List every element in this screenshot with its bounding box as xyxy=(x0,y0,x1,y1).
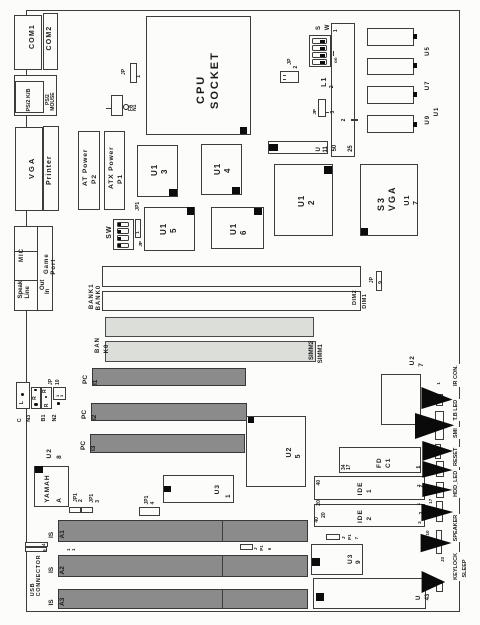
label BANK1 xyxy=(89,283,95,309)
CPU socket U0 xyxy=(146,16,251,135)
chip U15 xyxy=(144,207,195,251)
battery box xyxy=(381,374,421,425)
USB header J4 xyxy=(25,542,48,547)
header pin rect HDD LED xyxy=(436,482,444,498)
pin1 marker CPU socket xyxy=(240,128,247,135)
label DIMM1 xyxy=(363,294,369,309)
chip U17 S3 VGA xyxy=(360,164,419,236)
pin number 1 (RESET) xyxy=(417,466,422,469)
arrow SPEAKER xyxy=(421,504,453,522)
jumper JP1 (right of SW dip) xyxy=(135,219,141,239)
label U7 xyxy=(425,81,431,91)
label Out In xyxy=(40,280,46,290)
label DIMM2 xyxy=(353,290,359,305)
jumper JP16 xyxy=(240,544,253,550)
chip U28 label xyxy=(47,448,54,458)
jumper JP9 xyxy=(376,271,382,291)
label MIC xyxy=(19,248,25,262)
cache chip (U10) xyxy=(367,115,414,133)
ISA slot ISA1 xyxy=(58,520,308,542)
label BANK0 xyxy=(96,285,102,311)
connector ATX Power P1 xyxy=(104,131,125,210)
connector IDE2 xyxy=(314,504,425,528)
connector Printer xyxy=(43,126,59,212)
arrow IR CON xyxy=(421,387,452,409)
label CN2 xyxy=(53,414,59,421)
jumper JP14 xyxy=(139,507,160,516)
jumper JP10 xyxy=(53,387,66,400)
label SPEAKER xyxy=(454,514,460,543)
connector VGA xyxy=(15,127,44,211)
pin number 1 (SPEAKER) xyxy=(417,503,422,506)
SIMM slot SIMM1 xyxy=(105,341,316,362)
chip U22 YAMAHA xyxy=(34,466,69,507)
chip U16 xyxy=(211,207,264,249)
PCI slot PCI1 xyxy=(92,368,246,387)
connector CN2 (R R) xyxy=(41,387,52,409)
label RESET xyxy=(454,447,460,467)
label J3 xyxy=(441,557,446,562)
label U9 xyxy=(425,115,431,125)
fan connector FAN1 xyxy=(111,95,124,116)
cache chip row (U5) xyxy=(367,28,414,46)
connector IDE1 xyxy=(314,476,425,499)
jumper JP1 (above CPU) xyxy=(130,63,137,83)
header pin rect SMI xyxy=(435,444,441,459)
label B1 xyxy=(42,414,48,421)
label SLEEP xyxy=(463,559,469,577)
cache chip (U9) xyxy=(367,86,414,104)
arrow TB LED xyxy=(415,413,454,439)
connector COM1 xyxy=(14,15,42,70)
chip U27 label xyxy=(410,355,417,365)
label KEYLOCK xyxy=(454,552,460,581)
DIMM slot DIMM1 xyxy=(102,292,361,312)
pin number 1 (IR) xyxy=(437,382,442,385)
connector audio/game port block xyxy=(14,226,54,311)
chip U39 xyxy=(311,544,363,575)
PCI slot PCI2 xyxy=(91,403,247,422)
arrow HDD LED xyxy=(422,483,452,497)
jumper JP17 xyxy=(326,534,340,540)
label CN3 xyxy=(18,418,24,422)
label SMI xyxy=(454,427,460,439)
connector FDC1 xyxy=(339,447,421,472)
connector 50-pin header xyxy=(331,23,356,157)
connector PS/2 K/B xyxy=(15,81,44,113)
jumper JP12 xyxy=(69,507,81,513)
pin number 3 xyxy=(418,521,423,524)
label BANK0 (SIMM) xyxy=(95,337,101,353)
connector CN (R) xyxy=(31,387,41,409)
header pin rect KEYLOCK xyxy=(436,531,443,555)
chip U25 xyxy=(246,416,306,488)
DIMM slot DIMM2 xyxy=(102,266,361,287)
header pin rect RESET xyxy=(436,461,444,477)
ISA slot ISA2 xyxy=(58,556,308,578)
connector COM2 xyxy=(43,13,58,70)
label Speak Line xyxy=(18,281,24,299)
connector AT Power P2 xyxy=(78,131,100,210)
dip switch SW (near ATX power) xyxy=(106,225,113,238)
connector CN3 (CD audio L) xyxy=(16,382,30,410)
ISA slot ISA3 xyxy=(58,589,308,609)
jumper JP3 xyxy=(318,99,326,117)
arrow SMI xyxy=(422,441,453,461)
SIMM slot SIMM2 xyxy=(105,317,314,337)
jumper JP2 xyxy=(280,71,299,83)
label PS/2 MOUSE xyxy=(46,94,51,105)
label USB CONNECTOR xyxy=(31,583,37,597)
jumper JP13 xyxy=(81,507,93,513)
label U1 xyxy=(434,107,440,117)
header pin rect SPEAKER xyxy=(436,501,444,522)
chip U12 xyxy=(274,164,333,235)
header pin rect TB LED xyxy=(435,411,444,441)
label SIMM1 xyxy=(318,344,324,363)
PCI slot PCI3 xyxy=(90,434,245,453)
pin number 17 xyxy=(429,499,434,504)
cache chip (U7) xyxy=(367,58,414,75)
chip U14 xyxy=(201,144,242,196)
label SIMM2 xyxy=(309,341,315,360)
chip U43 xyxy=(313,578,426,610)
chip U31 xyxy=(163,475,234,503)
label HDD_LED xyxy=(454,470,460,498)
label IR CON. xyxy=(454,364,460,387)
label T.B LED xyxy=(454,399,460,422)
dip switch SW (top right) xyxy=(309,35,331,67)
chip U11 xyxy=(268,141,328,154)
pin marks 1 1 xyxy=(67,548,72,551)
arrow KEYLOCK xyxy=(421,534,452,552)
header pin rect SLEEP xyxy=(436,583,443,592)
label Game Port xyxy=(44,253,50,274)
header pin rect IR CON xyxy=(436,394,442,406)
arrow RESET xyxy=(422,461,452,478)
label U5 xyxy=(425,46,431,56)
arrow SLEEP xyxy=(422,571,446,593)
chip U13 xyxy=(137,145,178,197)
pin number 2 (HDD) xyxy=(417,484,422,487)
pin number 10 xyxy=(426,530,431,535)
connector PS/2 keyboard/mouse block xyxy=(14,75,57,117)
divider audio block xyxy=(37,226,38,311)
inductor L1 xyxy=(321,77,328,87)
